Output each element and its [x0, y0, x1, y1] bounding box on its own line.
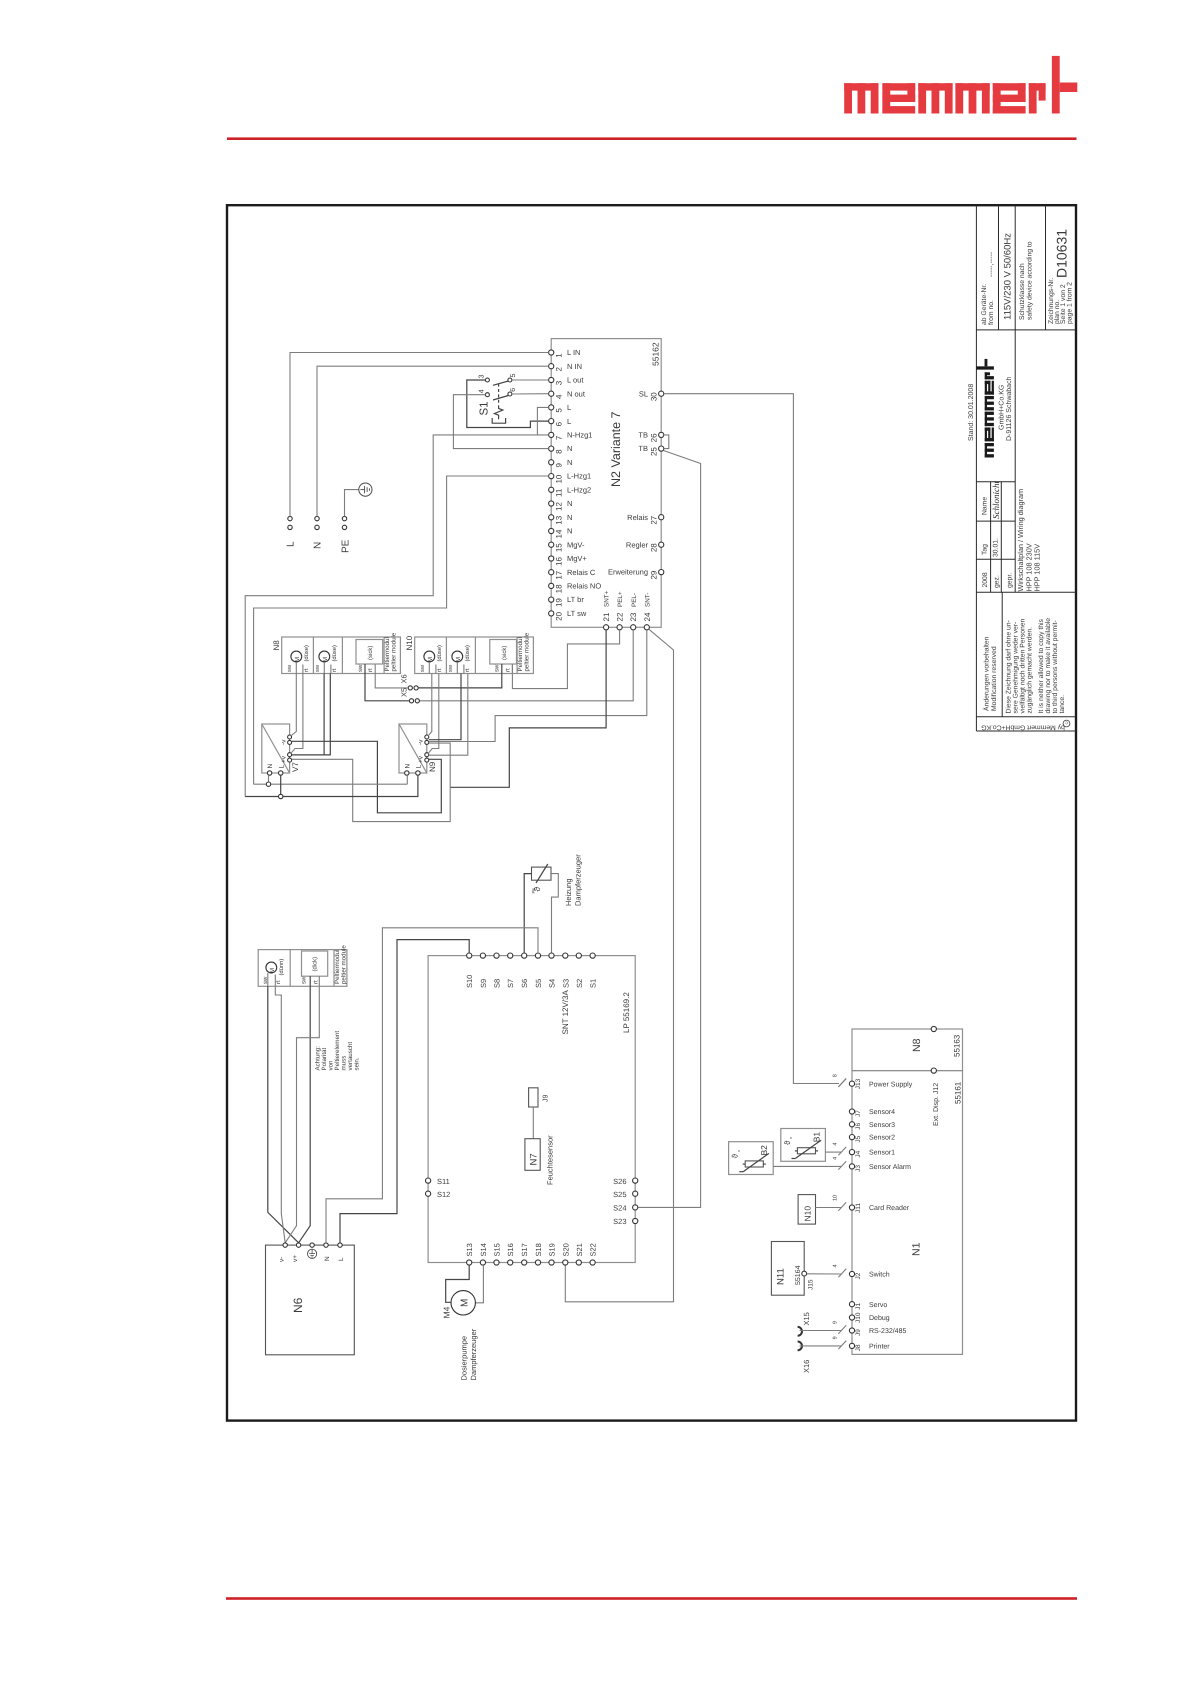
- wire N9 +v to N10 cell2 rt: [429, 674, 468, 756]
- svg-text:20: 20: [554, 611, 563, 620]
- title block frame: [976, 205, 1076, 731]
- svg-text:Tag: Tag: [982, 544, 989, 555]
- SNT pin S14: [479, 1243, 488, 1265]
- wire N10 cell1 rt to N9 +v: [428, 674, 439, 754]
- svg-text:X6: X6: [400, 674, 409, 683]
- N2 pin 18 Relais NO: [549, 582, 602, 594]
- svg-text:S12: S12: [437, 1190, 450, 1199]
- switch S1: [478, 374, 517, 424]
- wire N10 to J11: [816, 1207, 842, 1209]
- svg-text:-v: -v: [418, 739, 425, 745]
- wire heater to S6: [524, 874, 531, 953]
- SNT pin S18: [534, 1243, 543, 1265]
- motor M4: [442, 1291, 476, 1319]
- svg-text:13: 13: [554, 515, 563, 524]
- svg-text:(düse): (düse): [303, 645, 310, 662]
- svg-text:N2 Variante 7: N2 Variante 7: [609, 411, 623, 487]
- svg-text:29: 29: [649, 570, 658, 579]
- drawing border frame: [227, 205, 1076, 1420]
- svg-text:ϑ: ϑ: [783, 1140, 792, 1145]
- peltier module N8: [272, 632, 401, 673]
- wire N2 pin 5 stub: [537, 407, 548, 435]
- temperature sensor B1: [781, 1129, 826, 1162]
- N2 pin 30 SL: [639, 389, 664, 401]
- svg-text:RS-232/485: RS-232/485: [869, 1327, 906, 1335]
- svg-text:N6: N6: [291, 1297, 305, 1313]
- SNT pin S7: [506, 953, 515, 988]
- svg-text:24: 24: [643, 612, 652, 621]
- memmert logo top right: [844, 56, 1077, 114]
- svg-text:23: 23: [629, 612, 638, 621]
- svg-text:S7: S7: [506, 979, 515, 988]
- svg-text:3: 3: [478, 375, 485, 379]
- N2 pin 22 PEL+: [616, 591, 625, 630]
- wire L input to N2 pin 1: [290, 353, 549, 517]
- svg-text:N10: N10: [405, 635, 414, 650]
- svg-text:J3: J3: [855, 1165, 862, 1172]
- svg-text:N: N: [267, 764, 274, 769]
- connector X5: [400, 688, 420, 703]
- wire X16 to J8: [800, 1345, 842, 1347]
- svg-text:sere Genehmigung weder ver-: sere Genehmigung weder ver-: [1013, 622, 1020, 714]
- svg-text:PE: PE: [341, 539, 352, 553]
- terminal block N2 Variante 7 outline: [551, 339, 661, 628]
- svg-text:D-91126 Schwabach: D-91126 Schwabach: [1005, 376, 1013, 441]
- svg-text:N: N: [567, 499, 572, 508]
- svg-text:PEL+: PEL+: [617, 591, 624, 607]
- N bus wire: [254, 775, 408, 786]
- svg-text:Relais C: Relais C: [567, 568, 596, 577]
- SNT pin S8: [493, 953, 502, 988]
- svg-text:N1: N1: [911, 1242, 923, 1256]
- wire peltier sw1 to N6 v+: [268, 986, 299, 1243]
- svg-text:gez.: gez.: [993, 575, 1000, 588]
- svg-text:30.01.: 30.01.: [992, 538, 999, 557]
- svg-text:L-Hzg2: L-Hzg2: [567, 485, 591, 494]
- wire N input to N2 pin 2: [317, 366, 549, 516]
- svg-text:S6: S6: [520, 979, 529, 988]
- svg-text:drawing nor to make it availab: drawing nor to make it available: [1045, 618, 1052, 714]
- svg-text:X16: X16: [802, 1360, 811, 1373]
- SNT pin S9: [479, 953, 488, 988]
- svg-text:22: 22: [616, 612, 625, 621]
- wire J15 to J2: [807, 1273, 841, 1275]
- N2 pin 14 N: [549, 527, 573, 539]
- svg-text:Stand: 30.01.2008: Stand: 30.01.2008: [967, 384, 975, 441]
- bottom red rule: [226, 1597, 1077, 1600]
- svg-text:SNT 12V/3A: SNT 12V/3A: [561, 990, 570, 1035]
- svg-text:sw: sw: [420, 664, 426, 672]
- module N11: [771, 1242, 804, 1296]
- svg-text:19: 19: [554, 598, 563, 607]
- svg-text:9: 9: [833, 1336, 839, 1339]
- svg-text:Debug: Debug: [869, 1314, 890, 1322]
- svg-text:6: 6: [510, 388, 517, 392]
- N1 pin J10 Debug: [849, 1312, 889, 1323]
- svg-text:″: ″: [737, 1149, 744, 1152]
- svg-text:gepr.: gepr.: [1007, 573, 1014, 588]
- svg-text:SNT+: SNT+: [604, 590, 611, 607]
- svg-text:S20: S20: [561, 1243, 570, 1256]
- N1 pin Ext Disp J12: [931, 1068, 940, 1126]
- svg-text:rt: rt: [368, 668, 374, 672]
- svg-text:S4: S4: [548, 979, 557, 988]
- N1 pin J13 Power Supply: [833, 1074, 913, 1089]
- svg-text:Dosierpumpe: Dosierpumpe: [460, 1336, 469, 1381]
- SNT pin S19: [548, 1243, 557, 1265]
- N2 pin 11 L-Hzg2: [549, 485, 592, 497]
- svg-text:ϑ: ϑ: [731, 1153, 740, 1158]
- svg-text:Relais NO: Relais NO: [567, 582, 601, 591]
- svg-text:2008: 2008: [982, 572, 989, 587]
- wire N8 cell1 sw to V7 -v: [291, 674, 297, 737]
- N8 display pin: [931, 1026, 936, 1031]
- N2 pin 16 MgV+: [549, 554, 588, 566]
- connector X16: [798, 1342, 811, 1374]
- svg-text:Dampferzeuger: Dampferzeuger: [469, 1328, 478, 1380]
- svg-text:S19: S19: [548, 1243, 557, 1256]
- N6 pin N: [324, 1243, 331, 1261]
- svg-text:-v: -v: [280, 739, 287, 745]
- N2 pin 28 Regler: [626, 540, 664, 552]
- svg-text:4: 4: [554, 394, 563, 399]
- svg-text:3: 3: [554, 380, 563, 385]
- svg-text:S10: S10: [465, 975, 474, 988]
- wire N2 pin 7 to left bus: [245, 435, 548, 797]
- wire N2 pin 25 TB to SNT S24: [638, 451, 701, 1208]
- svg-text:rt: rt: [437, 668, 443, 672]
- svg-text:L IN: L IN: [567, 348, 580, 357]
- title text Aenderungen: [983, 636, 999, 711]
- wire S14 to M4: [475, 1265, 483, 1303]
- svg-text:L: L: [278, 765, 285, 769]
- SNT pin S13: [465, 1243, 474, 1265]
- svg-text:Feuchtesensor: Feuchtesensor: [546, 1135, 555, 1185]
- svg-text:by Memmert GmbH+Co.KG: by Memmert GmbH+Co.KG: [981, 724, 1065, 731]
- wire N6 L to S10: [340, 940, 469, 1243]
- connector J9 on SNT: [529, 1088, 550, 1107]
- humidity sensor N7: [525, 1135, 555, 1185]
- svg-text:17: 17: [554, 570, 563, 579]
- N2 pin 23 PEL-: [629, 593, 638, 630]
- wire S1 contact 6 to N2 pin 4: [512, 393, 549, 395]
- svg-text:N7: N7: [529, 1153, 540, 1165]
- svg-text:Power Supply: Power Supply: [869, 1080, 913, 1088]
- N1 pin J9 RS-232/485: [833, 1321, 907, 1336]
- svg-text:sw: sw: [495, 664, 501, 672]
- svg-text:9: 9: [833, 1321, 839, 1324]
- peltier module small: [258, 945, 348, 987]
- svg-text:10: 10: [833, 1195, 839, 1201]
- svg-text:S11: S11: [437, 1177, 450, 1186]
- block N6: [266, 1245, 355, 1355]
- svg-text:Erweiterung: Erweiterung: [608, 568, 648, 577]
- svg-text:sw: sw: [287, 664, 293, 672]
- svg-text:Modification reserved: Modification reserved: [991, 646, 998, 711]
- svg-text:V7: V7: [291, 762, 300, 772]
- svg-text:4: 4: [833, 1143, 839, 1146]
- N2 pin 4 N out: [549, 389, 586, 399]
- svg-text:Sensor4: Sensor4: [869, 1109, 895, 1116]
- N2 pin 19 LT br: [549, 595, 585, 607]
- svg-text:LT br: LT br: [567, 595, 584, 604]
- svg-text:Servo: Servo: [869, 1302, 887, 1309]
- svg-text:L: L: [567, 417, 571, 426]
- SNT pin S11: [426, 1177, 450, 1186]
- SNT pin S16: [506, 1243, 515, 1265]
- SNT pin S10: [465, 953, 474, 988]
- SNT pin S6: [520, 953, 529, 988]
- N2 pin 24 SNT-: [643, 593, 652, 630]
- svg-text:N out: N out: [567, 389, 586, 398]
- svg-text:Änderungen vorbehalten: Änderungen vorbehalten: [983, 636, 991, 711]
- N1 pin J5 Sensor2: [849, 1135, 895, 1143]
- svg-text:Diese Zeichnung darf ohne un-: Diese Zeichnung darf ohne un-: [1006, 620, 1013, 713]
- svg-text:55161: 55161: [954, 1081, 963, 1104]
- svg-text:28: 28: [649, 543, 658, 552]
- svg-text:L: L: [338, 1257, 345, 1261]
- svg-text:LT sw: LT sw: [567, 609, 587, 618]
- N2 pin 1 L IN: [549, 348, 581, 358]
- svg-text:PE: PE: [531, 888, 536, 894]
- svg-text:X5: X5: [400, 688, 409, 697]
- N1 pin J4 Sensor1: [833, 1143, 896, 1158]
- connector X15: [798, 1312, 811, 1336]
- N2 pin 20 LT sw: [549, 609, 587, 621]
- title text It is neither: [1038, 618, 1066, 714]
- svg-text:J9: J9: [543, 1095, 550, 1103]
- svg-text:(düse): (düse): [436, 645, 443, 662]
- svg-text:S17: S17: [520, 1243, 529, 1256]
- wire heater to S4: [551, 874, 558, 953]
- svg-text:Relais: Relais: [627, 513, 648, 522]
- svg-text:(düse): (düse): [464, 645, 471, 662]
- title text ab Geraete-Nr: [981, 251, 995, 325]
- svg-text:rt: rt: [505, 668, 511, 672]
- SNT pin S3: [561, 953, 570, 988]
- svg-text:N: N: [567, 444, 572, 453]
- svg-text:5: 5: [510, 374, 517, 378]
- svg-text:Name: Name: [982, 497, 989, 515]
- wire N10 cell1 sw to N9 -v: [428, 674, 432, 737]
- svg-text:Printer: Printer: [869, 1343, 890, 1351]
- wire S1 contact 4 to N2 pin 8: [453, 395, 548, 449]
- svg-text:N: N: [567, 513, 572, 522]
- svg-text:N IN: N IN: [567, 362, 582, 371]
- SNT pin S24: [613, 1204, 638, 1213]
- driver block V7: [262, 724, 300, 775]
- svg-text:7: 7: [554, 435, 563, 440]
- svg-text:J1: J1: [855, 1302, 862, 1309]
- svg-text:S24: S24: [613, 1204, 626, 1213]
- svg-text:+v: +v: [418, 755, 425, 763]
- svg-text:S23: S23: [613, 1217, 626, 1226]
- wire N2 pin 23 to X5: [420, 630, 634, 701]
- svg-text:10: 10: [554, 474, 563, 483]
- svg-text:Schlonicht: Schlonicht: [991, 481, 1001, 519]
- svg-text:(sick): (sick): [367, 646, 374, 660]
- svg-text:25: 25: [649, 447, 658, 456]
- SNT pin S1: [589, 953, 598, 988]
- N2 pin 26 TB: [638, 431, 663, 443]
- wire X6 to N10 sick sw: [418, 674, 502, 688]
- controller board N1 outline: [852, 1071, 963, 1355]
- svg-text:N8: N8: [911, 1038, 923, 1052]
- svg-text:-----,-----: -----,-----: [988, 251, 995, 277]
- N1 pin J2 Switch: [833, 1264, 890, 1279]
- wire X15 to J9: [800, 1330, 842, 1332]
- svg-text:rt: rt: [304, 668, 310, 672]
- title text Zeichnungs-Nr: [1048, 278, 1074, 324]
- N1 pin J1 Servo: [849, 1302, 887, 1310]
- wire N8 sick sw to X5: [365, 674, 409, 701]
- svg-text:LP 55169.2: LP 55169.2: [622, 992, 631, 1033]
- svg-text:J15: J15: [808, 1279, 815, 1290]
- svg-text:30: 30: [649, 392, 658, 401]
- svg-text:Sensor2: Sensor2: [869, 1135, 895, 1142]
- svg-text:J5: J5: [855, 1135, 862, 1142]
- svg-text:S22: S22: [589, 1243, 598, 1256]
- wire V7 -v to N9 +v cross link: [292, 741, 442, 813]
- svg-text:J13: J13: [855, 1078, 862, 1089]
- svg-text:S5: S5: [534, 979, 543, 988]
- title table texts: [982, 481, 1014, 588]
- earth ground symbol: [359, 483, 372, 496]
- svg-text:tance.: tance.: [1059, 695, 1066, 714]
- svg-text:L: L: [286, 541, 297, 547]
- svg-text:11: 11: [554, 488, 563, 497]
- display board N8 outline: [852, 1029, 963, 1071]
- svg-text:J6: J6: [855, 1123, 862, 1130]
- svg-text:v+: v+: [292, 1255, 299, 1262]
- SNT pin S5: [534, 953, 543, 988]
- svg-text:12: 12: [554, 502, 563, 511]
- svg-text:14: 14: [554, 529, 563, 538]
- terminal N input: [313, 516, 324, 549]
- wire S1 contact 3 to N2 pin 6: [467, 380, 549, 428]
- svg-text:J7: J7: [855, 1110, 862, 1117]
- svg-text:N: N: [313, 542, 324, 549]
- svg-text:N10: N10: [803, 1206, 813, 1222]
- svg-text:N11: N11: [776, 1268, 787, 1285]
- wire V7 +v to N9 -v cross link: [292, 743, 450, 822]
- N2 pin 9 N: [549, 458, 573, 468]
- svg-text:S2: S2: [575, 979, 584, 988]
- svg-text:(sick): (sick): [501, 646, 508, 660]
- N1 pin J8 Printer: [833, 1336, 891, 1351]
- svg-text:6: 6: [554, 421, 563, 426]
- temperature sensor B2: [729, 1142, 774, 1175]
- svg-text:S1: S1: [589, 979, 598, 988]
- wire N2 pin 24 branch to N9: [429, 630, 647, 742]
- wire J9 to N7: [532, 1107, 534, 1139]
- wire N2 pin 21 to cross link: [450, 630, 606, 787]
- wire N9 -v to N10 cell2 sw: [429, 674, 461, 740]
- svg-text:Sensor1: Sensor1: [869, 1150, 895, 1157]
- svg-text:Dampferzeuger: Dampferzeuger: [574, 854, 583, 906]
- svg-text:S25: S25: [613, 1190, 626, 1199]
- svg-text:Heizung: Heizung: [564, 878, 573, 906]
- svg-text:″: ″: [790, 1136, 797, 1139]
- svg-text:Schutzklasse nach: Schutzklasse nach: [1019, 263, 1026, 320]
- N2 pin 25 TB: [638, 444, 663, 456]
- SNT pin S12: [426, 1190, 451, 1199]
- N2 pin 15 MgV-: [549, 540, 585, 552]
- N2 pin 17 Relais C: [549, 568, 596, 580]
- svg-text:v-: v-: [279, 1257, 286, 1262]
- wire B2 to J3: [773, 1165, 841, 1167]
- svg-text:SNT-: SNT-: [644, 593, 651, 607]
- L bus wire: [245, 775, 418, 799]
- SNT pin S26: [613, 1177, 638, 1186]
- svg-text:MgV+: MgV+: [567, 554, 587, 563]
- connector X6: [400, 674, 419, 690]
- svg-text:55164: 55164: [795, 1265, 802, 1285]
- svg-text:M: M: [460, 1299, 471, 1307]
- N1 pin J11 Card Reader: [833, 1195, 910, 1213]
- svg-text:It is neither allowed to copy: It is neither allowed to copy this: [1038, 618, 1045, 713]
- N11 pin J15: [802, 1271, 815, 1290]
- N6 pin v-: [279, 1243, 288, 1262]
- svg-text:sw: sw: [315, 664, 321, 672]
- svg-text:TB: TB: [638, 431, 648, 440]
- svg-text:peltier module: peltier module: [391, 632, 398, 671]
- svg-text:ab Geräte-Nr.: ab Geräte-Nr.: [981, 284, 988, 325]
- title block memmert logo: [977, 359, 994, 458]
- svg-text:1: 1: [554, 353, 563, 358]
- svg-text:HPP 108 115V: HPP 108 115V: [1033, 544, 1042, 592]
- svg-text:S14: S14: [479, 1243, 488, 1256]
- SNT pin S21: [575, 1243, 584, 1265]
- SNT pin S22: [589, 1243, 598, 1265]
- note Achtung Polaritaet: [315, 1031, 361, 1071]
- svg-text:B2: B2: [759, 1145, 769, 1156]
- svg-text:N9: N9: [428, 761, 437, 772]
- wire N2 pin 24 to SNT S20: [565, 629, 673, 1302]
- svg-text:(dünn): (dünn): [278, 959, 285, 976]
- wire N2 pin 10 to left bus: [254, 476, 549, 784]
- svg-text:4: 4: [478, 389, 485, 393]
- svg-text:M: M: [427, 657, 434, 662]
- svg-text:sw: sw: [358, 664, 364, 672]
- svg-text:M4: M4: [442, 1306, 452, 1318]
- svg-text:zugänglich gemacht werden.: zugänglich gemacht werden.: [1027, 627, 1034, 714]
- svg-text:N-Hzg1: N-Hzg1: [567, 431, 592, 440]
- N2 pin 10 L-Hzg1: [549, 472, 592, 484]
- svg-text:M: M: [455, 657, 462, 662]
- svg-text:peltier module: peltier module: [341, 945, 348, 984]
- card reader N10: [798, 1195, 815, 1225]
- wire N6 N to S5: [326, 928, 538, 1243]
- svg-text:J2: J2: [855, 1272, 862, 1279]
- heater Heizung Dampferzeuger: [531, 854, 583, 906]
- N2 pin 27 Relais: [627, 513, 664, 525]
- N2 pin 12 N: [549, 499, 573, 511]
- title text copyright: [981, 720, 1070, 731]
- blade J13: [838, 1079, 846, 1087]
- wire N8 sick rt to X6: [375, 674, 408, 688]
- N2 pin 2 N IN: [549, 362, 582, 372]
- N2 pin 5 L: [549, 403, 572, 413]
- svg-text:J9: J9: [855, 1329, 862, 1336]
- svg-text:26: 26: [649, 433, 658, 442]
- svg-text:page 1 from 2: page 1 from 2: [1066, 282, 1073, 324]
- peltier module N10: [405, 632, 534, 673]
- svg-text:sw: sw: [448, 664, 454, 672]
- svg-text:safety device according to: safety device according to: [1026, 241, 1033, 320]
- N1 pin J7 Sensor4: [849, 1109, 895, 1117]
- N2 pin 7 N-Hzg1: [549, 431, 593, 441]
